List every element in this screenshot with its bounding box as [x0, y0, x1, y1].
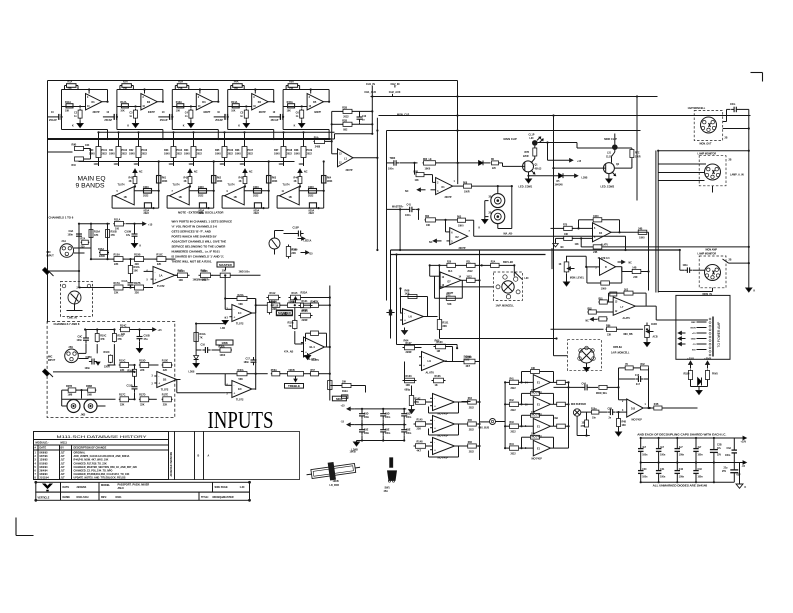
- svg-text:+5V8: +5V8: [704, 357, 711, 361]
- svg-text:NC: NC: [629, 262, 633, 264]
- svg-text:14B: 14B: [282, 312, 288, 316]
- svg-text:ARCHIVED VERSIONS: ARCHIVED VERSIONS: [170, 452, 173, 477]
- svg-text:NAME: NAME: [63, 496, 71, 499]
- svg-text:1K4B: 1K4B: [651, 323, 657, 326]
- svg-text:LED_COM1: LED_COM1: [519, 185, 533, 188]
- svg-text:R15C: R15C: [156, 254, 163, 257]
- svg-text:10K0: 10K0: [109, 153, 115, 156]
- svg-text:M111: M111: [61, 441, 68, 445]
- svg-text:MON AMP: MON AMP: [706, 249, 718, 252]
- svg-text:P5V8: P5V8: [712, 374, 718, 376]
- svg-text:10K0: 10K0: [294, 153, 300, 156]
- svg-text:R17D: R17D: [139, 394, 146, 397]
- svg-text:+: +: [434, 404, 436, 408]
- svg-text:R86: R86: [606, 324, 611, 327]
- svg-text:22K: 22K: [163, 403, 168, 406]
- svg-text:C11A: C11A: [122, 280, 128, 283]
- svg-text:10K0: 10K0: [143, 186, 149, 189]
- svg-text:100K: 100K: [220, 164, 226, 166]
- svg-text:47K: 47K: [100, 338, 105, 341]
- svg-text:JLT: JLT: [61, 452, 66, 455]
- svg-text:47K: 47K: [94, 234, 99, 237]
- svg-text:D: D: [605, 266, 607, 269]
- svg-text:L6: L6: [409, 315, 413, 319]
- svg-text:BSP-LED: BSP-LED: [503, 262, 513, 264]
- svg-text:NC: NC: [304, 171, 308, 174]
- svg-text:NC: NC: [249, 171, 253, 174]
- svg-text:LED1A: LED1A: [304, 240, 312, 243]
- svg-text:2022: 2022: [343, 116, 349, 119]
- svg-text:100K: 100K: [94, 164, 100, 166]
- svg-text:10K: 10K: [65, 111, 70, 113]
- svg-text:3307P: 3307P: [459, 247, 466, 250]
- svg-text:MAIN EQ: MAIN EQ: [78, 176, 106, 183]
- svg-text:75K: 75K: [234, 88, 239, 90]
- svg-text:REV:: REV:: [101, 496, 107, 499]
- svg-text:R15A: R15A: [287, 101, 293, 104]
- svg-text:R7B: R7B: [525, 152, 530, 154]
- svg-text:R17B: R17B: [134, 282, 141, 285]
- svg-text:-: -: [434, 441, 435, 445]
- svg-text:+: +: [158, 382, 160, 386]
- svg-text:100n: 100n: [68, 233, 74, 236]
- svg-text:R14C: R14C: [120, 325, 127, 328]
- svg-text:100n: 100n: [405, 214, 411, 217]
- svg-text:C42: C42: [679, 468, 684, 471]
- svg-text:2022: 2022: [248, 153, 254, 156]
- svg-text:TO POWER AMP: TO POWER AMP: [717, 321, 721, 348]
- svg-text:10K0: 10K0: [274, 153, 280, 156]
- svg-text:R44,R45_NOW_4K7_WAS_10K: R44,R45_NOW_4K7_WAS_10K: [74, 459, 109, 462]
- svg-text:2022: 2022: [253, 194, 259, 197]
- svg-text:R14A: R14A: [231, 101, 237, 104]
- svg-text:L30B: L30B: [582, 177, 588, 180]
- svg-text:ADD_JUMPS_CA103.CA4-R13,R106_A: ADD_JUMPS_CA103.CA4-R13,R106_AND_R204A: [74, 455, 130, 458]
- svg-text:ALATU: ALATU: [312, 359, 320, 362]
- svg-text:4K: 4K: [239, 180, 242, 183]
- svg-text:JLT: JLT: [61, 477, 66, 480]
- svg-text:WHY PORTS IN CHANNEL 1 GETS SE: WHY PORTS IN CHANNEL 1 GETS SERVICE: [172, 220, 233, 224]
- svg-text:10K0: 10K0: [235, 153, 241, 156]
- svg-text:R2A: R2A: [123, 81, 128, 84]
- svg-text:75K: 75K: [123, 88, 128, 90]
- svg-text:3307P: 3307P: [259, 111, 266, 114]
- svg-text:100n: 100n: [385, 417, 391, 419]
- svg-text:+: +: [155, 278, 157, 282]
- svg-text:25V: 25V: [722, 471, 727, 473]
- svg-text:2488: 2488: [315, 146, 321, 149]
- svg-text:100n: 100n: [364, 433, 370, 435]
- svg-text:R15B: R15B: [134, 254, 141, 257]
- svg-text:100K: 100K: [272, 180, 278, 183]
- svg-text:3307P: 3307P: [314, 111, 321, 114]
- svg-text:PASSPORT_PA250_MIXER: PASSPORT_PA250_MIXER: [118, 484, 150, 487]
- svg-text:13K: 13K: [607, 335, 612, 337]
- svg-text:10K0: 10K0: [220, 354, 226, 357]
- svg-text:R15C: R15C: [119, 359, 126, 362]
- svg-text:C41: C41: [660, 468, 665, 471]
- svg-text:R30A: R30A: [238, 369, 244, 372]
- svg-text:MAIN CLIP: MAIN CLIP: [504, 137, 518, 141]
- svg-text:VERTICLE: VERTICLE: [38, 496, 50, 499]
- svg-text:R15D: R15D: [139, 359, 146, 362]
- svg-text:56K: 56K: [447, 304, 452, 306]
- svg-text:R145: R145: [417, 419, 424, 422]
- svg-text:2B: 2B: [725, 138, 728, 140]
- svg-text:R3A: R3A: [178, 81, 183, 84]
- svg-text:+: +: [404, 319, 406, 323]
- svg-text:R42: R42: [510, 399, 515, 402]
- svg-text:-: -: [423, 355, 424, 359]
- svg-text:CH1_AUX: CH1_AUX: [364, 91, 376, 94]
- svg-text:NOTE - EXTERNAL OSCILLATOR: NOTE - EXTERNAL OSCILLATOR: [178, 211, 224, 215]
- svg-text:1C: 1C: [238, 311, 242, 315]
- svg-text:R08B: R08B: [86, 385, 92, 388]
- svg-text:LED_COM2: LED_COM2: [601, 186, 615, 189]
- svg-text:47B: 47B: [581, 425, 586, 428]
- svg-text:10K: 10K: [120, 111, 125, 113]
- svg-text:MASTER: MASTER: [219, 263, 233, 267]
- svg-text:MA: MA: [555, 417, 559, 420]
- svg-text:R13A: R13A: [176, 101, 182, 104]
- svg-text:2022: 2022: [469, 407, 475, 409]
- svg-text:MIX_BUS: MIX_BUS: [479, 427, 490, 430]
- svg-text:R133: R133: [406, 375, 413, 378]
- svg-text:-: -: [305, 341, 306, 345]
- svg-text:10K: 10K: [406, 384, 411, 387]
- svg-text:INPUTS: INPUTS: [208, 408, 274, 434]
- svg-text:24D: 24D: [633, 276, 638, 279]
- svg-text:2022: 2022: [464, 358, 470, 362]
- svg-text:100n: 100n: [683, 265, 689, 267]
- svg-text:100n: 100n: [385, 433, 391, 435]
- svg-text:MIX/EQ&MASTER: MIX/EQ&MASTER: [213, 496, 234, 499]
- svg-text:100n: 100n: [642, 454, 648, 456]
- svg-text:10K: 10K: [415, 180, 420, 182]
- svg-text:10K0: 10K0: [308, 186, 314, 189]
- svg-text:ACB: ACB: [653, 336, 658, 339]
- svg-text:25CAP: 25CAP: [104, 119, 112, 122]
- svg-text:SERVICE BELONGING TO THE LOWER: SERVICE BELONGING TO THE LOWER: [172, 245, 227, 249]
- svg-text:75K: 75K: [289, 88, 294, 90]
- svg-text:220: 220: [81, 246, 86, 249]
- svg-text:MON_OUT: MON_OUT: [700, 142, 712, 145]
- svg-text:R11A: R11A: [114, 218, 120, 221]
- svg-text:CL1P: CL1P: [529, 134, 535, 136]
- svg-text:TL074: TL074: [283, 183, 291, 186]
- svg-text:10K0: 10K0: [593, 216, 599, 218]
- svg-text:180n: 180n: [244, 361, 250, 364]
- svg-text:LAMP_A_IN: LAMP_A_IN: [730, 173, 744, 176]
- svg-text:R20: R20: [447, 262, 452, 264]
- svg-text:NC: NC: [139, 171, 143, 174]
- svg-text:TITLE:: TITLE:: [201, 496, 209, 499]
- svg-text:R81: R81: [599, 298, 604, 300]
- svg-text:R18: R18: [201, 269, 206, 273]
- svg-text:MA_AB-: MA_AB-: [504, 232, 514, 235]
- svg-text:ADJACENT CHANNELS WILL GIVE TH: ADJACENT CHANNELS WILL GIVE THE: [172, 240, 227, 244]
- svg-text:C16: C16: [201, 344, 206, 347]
- svg-text:+15: +15: [148, 224, 153, 227]
- svg-text:R21: R21: [446, 295, 451, 297]
- svg-text:10K0: 10K0: [198, 186, 204, 189]
- svg-text:3307P: 3307P: [346, 169, 353, 172]
- svg-text:R5A: R5A: [289, 81, 294, 84]
- svg-text:CH2_AUX: CH2_AUX: [389, 91, 401, 94]
- svg-text:JLT: JLT: [61, 455, 66, 458]
- svg-text:680p: 680p: [405, 389, 411, 392]
- svg-text:'A' VOL RIGHT IN CHANNELS 2-6: 'A' VOL RIGHT IN CHANNELS 2-6: [172, 225, 218, 229]
- svg-text:100K: 100K: [114, 164, 120, 166]
- svg-text:22K: 22K: [291, 252, 296, 255]
- svg-text:7K: 7K: [289, 325, 292, 328]
- svg-text:7K: 7K: [625, 364, 628, 366]
- svg-text:JLT: JLT: [61, 459, 66, 462]
- svg-text:4K7: 4K7: [466, 365, 471, 368]
- svg-text:1K: 1K: [559, 264, 562, 266]
- svg-text:C16: C16: [635, 375, 640, 377]
- svg-text:JLT: JLT: [61, 473, 66, 476]
- svg-text:2022: 2022: [307, 153, 313, 156]
- svg-text:CHANGED_C2_POL,C44_TO_NPO: CHANGED_C2_POL,C44_TO_NPO: [74, 470, 113, 473]
- svg-text:100R: 100R: [464, 191, 470, 193]
- svg-text:PORTS WHICH ARE SHARED BY: PORTS WHICH ARE SHARED BY: [172, 235, 217, 239]
- svg-text:SIG: SIG: [692, 350, 696, 352]
- svg-text:JLT: JLT: [61, 462, 66, 465]
- svg-text:REF: REF: [691, 322, 696, 324]
- svg-text:1M8: 1M8: [68, 394, 73, 397]
- svg-text:22K: 22K: [135, 292, 140, 295]
- svg-text:R41: R41: [510, 377, 515, 380]
- svg-text:1D: 1D: [238, 387, 242, 391]
- svg-text:R1B4: R1B4: [684, 373, 691, 376]
- svg-text:R62: R62: [425, 216, 430, 218]
- svg-text:+15V: +15V: [687, 357, 694, 361]
- svg-text:DP8-8A: DP8-8A: [613, 346, 622, 349]
- svg-text:10K0: 10K0: [253, 186, 259, 189]
- svg-text:R2A: R2A: [491, 261, 496, 264]
- svg-text:C8B: C8B: [608, 408, 613, 410]
- svg-text:2022: 2022: [511, 410, 517, 412]
- svg-text:9/02/94: 9/02/94: [40, 466, 49, 469]
- svg-text:25CAP: 25CAP: [215, 119, 223, 122]
- svg-text:2022: 2022: [177, 153, 183, 156]
- svg-text:2022: 2022: [511, 432, 517, 434]
- svg-text:220R: 220R: [302, 319, 308, 322]
- svg-text:+: +: [233, 315, 235, 319]
- svg-text:R04: R04: [468, 397, 473, 400]
- svg-text:R56A: R56A: [271, 369, 277, 372]
- svg-text:100K: 100K: [240, 164, 246, 166]
- svg-text:SIZE PAGE: SIZE PAGE: [215, 486, 228, 489]
- svg-text:C9D: C9D: [385, 414, 390, 416]
- svg-text:TREBLE: TREBLE: [288, 384, 300, 388]
- svg-text:100n: 100n: [730, 104, 736, 106]
- svg-text:C9D: C9D: [364, 414, 369, 416]
- svg-text:R15A: R15A: [114, 254, 121, 257]
- svg-text:3307P: 3307P: [93, 111, 100, 114]
- svg-text:M111: M111: [116, 496, 123, 499]
- svg-text:24B: 24B: [638, 227, 643, 230]
- svg-text:R82: R82: [588, 308, 593, 310]
- svg-text:CHANGED_MASTER_SECTION_R66_1K_: CHANGED_MASTER_SECTION_R66_1K_AND_R67_22…: [74, 466, 138, 469]
- svg-text:2022: 2022: [198, 194, 204, 197]
- svg-text:3307P: 3307P: [445, 196, 452, 199]
- svg-text:220R: 220R: [104, 365, 110, 368]
- svg-text:D.B: D.B: [631, 407, 635, 410]
- svg-text:1W2(MASTER+: 1W2(MASTER+: [193, 279, 211, 282]
- svg-text:LAMP MONITOR: LAMP MONITOR: [698, 152, 717, 155]
- svg-text:882: 882: [343, 129, 348, 132]
- svg-text:C4A: C4A: [582, 382, 587, 385]
- svg-text:1B: 1B: [289, 196, 292, 199]
- svg-text:JKB: JKB: [81, 413, 86, 416]
- svg-text:NC: NC: [561, 247, 565, 249]
- svg-text:-: -: [434, 397, 435, 401]
- svg-text:NC: NC: [429, 241, 433, 244]
- svg-text:220R: 220R: [523, 156, 529, 158]
- svg-text:AND EACH OF DECOUPLING CAPS SH: AND EACH OF DECOUPLING CAPS SHARED WITH …: [637, 434, 726, 437]
- svg-text:2022: 2022: [102, 153, 108, 156]
- svg-text:B: B: [198, 455, 200, 458]
- svg-text:20K: 20K: [222, 270, 227, 272]
- svg-text:R65: R65: [435, 339, 440, 343]
- svg-text:220R: 220R: [406, 351, 412, 354]
- svg-text:R43: R43: [510, 421, 515, 424]
- svg-text:TL072: TL072: [236, 398, 244, 402]
- svg-text:MON_CLP: MON_CLP: [397, 114, 410, 117]
- svg-text:22K: 22K: [140, 403, 145, 406]
- svg-text:R17: R17: [178, 269, 183, 273]
- svg-text:DESCRIPTION OF CHANGE: DESCRIPTION OF CHANGE: [74, 447, 107, 450]
- svg-text:INPUT: INPUT: [47, 255, 55, 258]
- svg-text:CHANGED_R17,R18_TO_22K: CHANGED_R17,R18_TO_22K: [74, 462, 107, 465]
- svg-text:10K: 10K: [531, 412, 536, 414]
- svg-text:MIX_BB: MIX_BB: [624, 333, 633, 336]
- svg-text:R2B: R2B: [342, 107, 347, 110]
- svg-text:8/06/93: 8/06/93: [40, 452, 49, 455]
- svg-text:100K: 100K: [189, 164, 195, 166]
- svg-text:+: +: [434, 426, 436, 430]
- svg-text:-: -: [233, 308, 234, 312]
- svg-text:2022: 2022: [511, 388, 517, 390]
- svg-text:+15: +15: [309, 253, 314, 256]
- svg-text:1N4148: 1N4148: [555, 184, 564, 187]
- svg-text:R1A: R1A: [68, 81, 73, 84]
- svg-text:29/4/94: 29/4/94: [40, 470, 49, 473]
- svg-text:50KB: 50KB: [289, 369, 295, 372]
- svg-text:10KB: 10KB: [350, 451, 356, 454]
- svg-text:56K: 56K: [239, 303, 244, 306]
- svg-text:100K: 100K: [217, 180, 223, 183]
- svg-text:K: K: [183, 125, 185, 128]
- svg-text:9 BANDS: 9 BANDS: [76, 183, 106, 190]
- svg-text:R06: R06: [468, 442, 473, 444]
- svg-text:R12A: R12A: [120, 101, 126, 104]
- svg-text:100n: 100n: [85, 367, 91, 370]
- svg-text:C11B: C11B: [127, 385, 133, 388]
- svg-text:C15P: C15P: [293, 227, 300, 230]
- svg-text:MASTER+: MASTER+: [392, 206, 404, 209]
- svg-text:63V: 63V: [737, 475, 742, 477]
- svg-text:+: +: [423, 364, 425, 368]
- svg-text:220R: 220R: [635, 156, 641, 158]
- svg-text:47u: 47u: [144, 338, 149, 341]
- svg-text:1B: 1B: [234, 196, 237, 199]
- svg-text:R24A: R24A: [238, 294, 244, 297]
- svg-text:+15: +15: [341, 405, 346, 408]
- svg-text:R10: R10: [72, 164, 77, 167]
- svg-text:-: -: [404, 311, 405, 315]
- svg-text:AM-8: AM-8: [118, 487, 125, 490]
- svg-text:1B: 1B: [582, 423, 585, 425]
- svg-text:R23A: R23A: [301, 291, 308, 295]
- svg-text:100n: 100n: [679, 476, 685, 478]
- svg-text:47u: 47u: [126, 234, 131, 237]
- svg-text:10K0: 10K0: [425, 167, 431, 170]
- svg-text:UPDATE_NOTES_AND_TITLEBLOCK_FI: UPDATE_NOTES_AND_TITLEBLOCK_FIELDS: [74, 477, 126, 480]
- svg-text:10K: 10K: [575, 244, 580, 246]
- svg-text:NC: NC: [405, 190, 409, 193]
- svg-text:MIX_LE: MIX_LE: [423, 158, 432, 161]
- svg-text:K: K: [238, 125, 240, 128]
- svg-text:22K: 22K: [114, 263, 119, 266]
- svg-text:ALATU: ALATU: [623, 317, 631, 320]
- svg-text:3B: 3B: [489, 197, 492, 199]
- svg-text:K: K: [72, 125, 74, 128]
- svg-text:R124: R124: [302, 310, 309, 313]
- svg-text:+: +: [305, 350, 307, 354]
- svg-text:10K0: 10K0: [89, 153, 95, 156]
- svg-text:R148: R148: [417, 441, 424, 444]
- svg-text:45A13: 45A13: [535, 167, 542, 170]
- svg-text:10K: 10K: [176, 111, 181, 113]
- svg-text:10K0: 10K0: [639, 238, 645, 240]
- svg-text:R8B: R8B: [414, 172, 419, 174]
- svg-text:10K: 10K: [179, 279, 184, 282]
- svg-text:100n: 100n: [77, 339, 83, 342]
- svg-text:75K: 75K: [68, 88, 73, 90]
- svg-text:R54: R54: [311, 300, 316, 303]
- svg-text:2022: 2022: [467, 271, 473, 273]
- svg-text:10K: 10K: [531, 368, 536, 370]
- svg-text:14B: 14B: [632, 267, 637, 270]
- svg-text:10K: 10K: [134, 269, 139, 272]
- svg-text:R44: R44: [510, 443, 515, 446]
- svg-text:10K: 10K: [564, 234, 569, 236]
- svg-text:8/10/93: 8/10/93: [40, 462, 49, 465]
- svg-text:K: K: [127, 125, 129, 128]
- svg-text:10K: 10K: [531, 390, 536, 392]
- svg-text:+: +: [233, 391, 235, 395]
- svg-text:2022: 2022: [143, 194, 149, 197]
- svg-text:LAMP MONITOR: LAMP MONITOR: [698, 253, 717, 256]
- svg-text:4K7: 4K7: [417, 450, 422, 453]
- svg-text:1W8: 1W8: [221, 341, 228, 345]
- svg-text:MON_LEVEL: MON_LEVEL: [570, 277, 585, 279]
- svg-text:2022: 2022: [197, 153, 203, 156]
- svg-text:CHANNELS 1 TO 6: CHANNELS 1 TO 6: [49, 216, 74, 220]
- svg-text:MC4741P: MC4741P: [532, 457, 543, 460]
- svg-text:R10a: R10a: [591, 408, 597, 410]
- svg-text:MIX BUFFER: MIX BUFFER: [571, 403, 586, 406]
- svg-text:100K: 100K: [279, 164, 285, 166]
- svg-text:-: -: [233, 384, 234, 388]
- svg-text:C9E: C9E: [364, 430, 369, 432]
- svg-text:K: K: [294, 125, 296, 128]
- svg-text:R4A: R4A: [234, 81, 239, 84]
- svg-text:20K: 20K: [342, 382, 347, 384]
